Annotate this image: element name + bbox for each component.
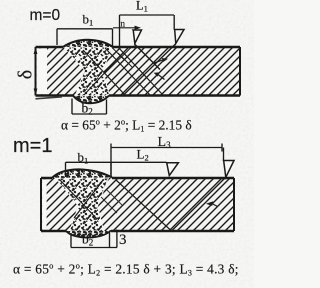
weld nugget stipple (m=0): [64, 48, 112, 96]
weld nugget stipple (m=1): [56, 179, 108, 231]
weld nugget clearing (m=1): [55, 178, 109, 231]
beam path from left probe (m=0): [135, 44, 161, 70]
beam path from right probe (m=0): [123, 44, 176, 96]
weld root bead (m=0): [73, 96, 109, 104]
weld root bead (m=1): [66, 231, 111, 238]
plate (top diagram) hatched body: [36, 47, 241, 96]
probe 4 (m=1 right): [224, 161, 235, 178]
weld cap bead (m=1): [52, 169, 112, 178]
probe 3 (m=1 left): [167, 163, 179, 176]
dimension b2 (m=0): [72, 99, 107, 115]
weld cap bead (m=0): [63, 40, 113, 47]
reflected beam line (m=0): [118, 47, 162, 94]
fusion line X (m=0): [83, 50, 125, 95]
svg-text:m=0: m=0: [30, 7, 61, 24]
dimension b1 (m=0): [57, 29, 113, 47]
dimension b1 / L2 (m=1): [66, 162, 167, 177]
dimension b2 and 3 (m=1): [71, 230, 117, 248]
svg-text:m=1: m=1: [13, 135, 52, 157]
weld nugget clearing (m=0): [63, 47, 113, 96]
svg-text:α = 65o + 2o; L1 = 2.15 δ: α = 65o + 2o; L1 = 2.15 δ: [61, 116, 192, 133]
plate (bottom diagram) hatched body: [41, 178, 234, 231]
plate edges (top diagram): [36, 46, 241, 48]
dimension delta (m=0): [34, 47, 38, 54]
beam path from right probe (m=1): [172, 178, 226, 231]
svg-text:α = 65o + 2o; L2 = 2.15 δ + 3;: α = 65o + 2o; L2 = 2.15 δ + 3; L3 = 4.3 …: [13, 260, 239, 277]
dimension L3 (m=1): [111, 144, 224, 178]
svg-text:δ: δ: [15, 70, 37, 79]
probe 1 (m=0 left): [133, 30, 142, 44]
svg-text:n: n: [121, 19, 126, 29]
svg-text:3: 3: [119, 232, 127, 248]
probe 2 (m=0 right): [175, 30, 185, 44]
dimension L1 (m=0): [120, 15, 175, 47]
plate edges (bottom diagram): [41, 177, 234, 179]
fusion line X (m=1): [60, 180, 97, 219]
reflected beam line (m=1): [116, 180, 171, 231]
